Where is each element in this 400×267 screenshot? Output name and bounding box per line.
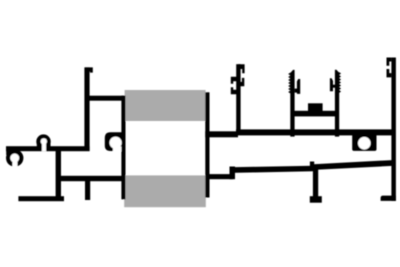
- T-stub stem: [313, 166, 318, 197]
- bar B (upper horizontal bar): [87, 96, 125, 101]
- sloped bar left span: [231, 166, 314, 173]
- W3 top stub upper: [387, 58, 392, 66]
- ST1 fin link: [295, 89, 298, 93]
- bar C (lower horizontal bar): [58, 176, 125, 181]
- sloped bar right span: [314, 160, 393, 170]
- center bump block: [308, 103, 323, 112]
- ST2 fin link: [333, 85, 336, 88]
- right outer wall W3: [391, 58, 396, 201]
- W3 top stub lower: [387, 69, 392, 77]
- ST2 fin: [330, 78, 333, 91]
- ST0 left stub upper: [231, 77, 238, 84]
- W3 bottom foot: [381, 196, 396, 201]
- gasket ring hook left (sigma shape): [6, 149, 23, 166]
- screw boss bore: [358, 137, 371, 150]
- thermal break strip bottom (gray polyamide): [124, 175, 206, 207]
- gasket bar A (left horizontal arm): [6, 146, 90, 151]
- stub S1 (short drop leg): [85, 179, 90, 200]
- ST0 left stub lower: [231, 87, 238, 94]
- ST0 top-right stub: [238, 64, 245, 73]
- main rail segment 2: [236, 129, 392, 135]
- T-stub foot: [310, 196, 322, 203]
- ST2 serrations: [339, 72, 341, 93]
- T-stub tick: [310, 162, 314, 168]
- vertical V2 (left lower leg): [56, 147, 61, 197]
- screw boss block: [352, 134, 376, 151]
- gasket hook on W1 (d shape): [105, 132, 122, 151]
- bottom-left foot: [18, 196, 64, 201]
- Z lower bar: [206, 174, 233, 179]
- V1 top lip: [85, 67, 93, 72]
- ST1 fin: [297, 79, 300, 94]
- vertical V1 (left upper leg): [84, 67, 89, 150]
- main rail segment 1: [205, 131, 238, 137]
- gasket knob bump (omega shape): [36, 134, 50, 148]
- accessory stem ST0: [236, 64, 240, 133]
- serrated stem ST1: [290, 70, 294, 137]
- left chamber wall W1: [121, 96, 125, 200]
- ST1 serrations: [288, 73, 290, 94]
- ST0 mid-right stub: [238, 78, 244, 86]
- serrated stem ST2: [335, 70, 339, 137]
- inter-stem bar: [292, 111, 337, 117]
- right chamber wall W2: [205, 92, 209, 197]
- Z riser: [230, 167, 236, 180]
- thermal break strip top (gray polyamide): [125, 90, 206, 121]
